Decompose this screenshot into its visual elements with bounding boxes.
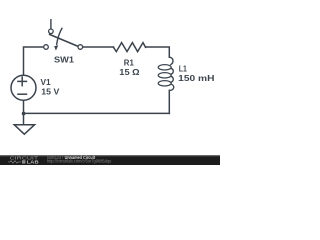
svg-text:http://circuitlab.com/c/5ur7g9: http://circuitlab.com/c/5ur7g9885dqu <box>47 158 112 163</box>
svg-text:V1: V1 <box>41 78 52 87</box>
svg-text:150 mH: 150 mH <box>178 74 215 83</box>
svg-text:15 Ω: 15 Ω <box>119 68 139 77</box>
svg-text:R1: R1 <box>124 59 135 68</box>
svg-text:15 V: 15 V <box>41 87 60 96</box>
svg-text:L1: L1 <box>179 65 188 74</box>
svg-text:SW1: SW1 <box>54 55 75 64</box>
svg-text:LAB: LAB <box>27 160 39 165</box>
